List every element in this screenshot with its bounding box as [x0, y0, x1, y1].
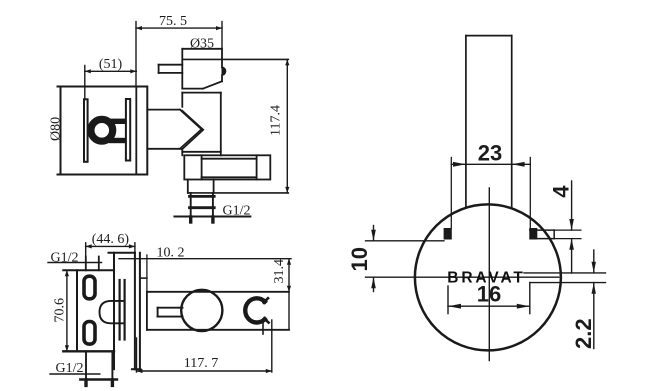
- bottom reference line: [188, 192, 288, 194]
- handle left bar: [84, 99, 88, 162]
- vertical arm bar: [466, 36, 512, 209]
- svg-text:Ø80: Ø80: [49, 117, 64, 141]
- left notch: [444, 228, 452, 240]
- mounting plate front section: [63, 253, 114, 369]
- svg-text:23: 23: [478, 140, 502, 165]
- threaded pipe: [191, 193, 213, 221]
- bar holder assembly: [147, 292, 289, 330]
- dimension 10.2 line: [119, 258, 291, 260]
- centerline right extension: [524, 272, 606, 274]
- side bulge knob: [222, 66, 227, 76]
- svg-text:10. 2: 10. 2: [157, 246, 185, 261]
- knob circle: [181, 290, 222, 331]
- G1/2 lower leader: [50, 373, 100, 375]
- thread bars: [190, 195, 215, 198]
- valve body section: [109, 253, 141, 369]
- dimension 117.4: [285, 59, 289, 193]
- G1/2 upper leader: [48, 262, 102, 264]
- inlet fitting lower: [84, 322, 95, 345]
- dimension 10: [371, 226, 376, 292]
- horizontal centerline: [366, 276, 559, 278]
- svg-text:(51): (51): [99, 57, 123, 72]
- inlet fitting upper: [84, 276, 95, 299]
- svg-text:10: 10: [347, 247, 372, 271]
- handle right bar: [126, 99, 130, 161]
- upper supply stub: [86, 257, 99, 271]
- dimension 4: [569, 181, 574, 273]
- svg-text:117. 7: 117. 7: [184, 356, 218, 371]
- handle stem band: [120, 280, 125, 340]
- svg-text:4: 4: [549, 185, 574, 198]
- dimension 117.7: [137, 320, 272, 373]
- svg-text:75. 5: 75. 5: [159, 14, 187, 29]
- svg-text:117.4: 117.4: [269, 105, 284, 136]
- handle knob donut: [91, 119, 113, 141]
- svg-text:16: 16: [477, 282, 501, 307]
- pipe feet: [189, 217, 192, 222]
- right notch: [529, 228, 537, 240]
- handle dome front view: [100, 301, 124, 323]
- dimension 75.5: [136, 22, 222, 87]
- svg-text:31.4: 31.4: [272, 259, 287, 284]
- handle connector lower: [109, 138, 127, 143]
- 10.2 extension to bar face: [146, 255, 148, 292]
- dimension 2.2: [592, 250, 596, 349]
- body step line: [140, 277, 147, 279]
- knob stub: [158, 308, 183, 317]
- dimension 70.6: [65, 270, 69, 351]
- dimension (44.6): [86, 243, 135, 257]
- spout bar: [184, 155, 270, 179]
- lower pipe flange: [80, 378, 117, 380]
- notch extension lines: [451, 158, 530, 229]
- shower holder C clip: [245, 298, 268, 322]
- dimension 31.4: [287, 259, 291, 330]
- lower supply pipe: [86, 351, 112, 379]
- tab extension lines: [554, 230, 581, 239]
- right tab: [530, 230, 554, 239]
- svg-text:G1/2: G1/2: [51, 251, 79, 266]
- faucet mid body: [182, 93, 221, 156]
- break chevron: [180, 110, 204, 150]
- svg-text:70.6: 70.6: [53, 298, 68, 323]
- left notch reference line: [366, 240, 445, 242]
- wall plate side view: [58, 87, 148, 175]
- outlet block: [188, 180, 214, 193]
- lower pipe feet: [84, 380, 87, 385]
- dimension (51): [85, 66, 137, 100]
- main circle: [415, 204, 561, 350]
- faucet cylinder top: [182, 49, 222, 89]
- svg-text:G1/2: G1/2: [223, 204, 251, 219]
- svg-text:2.2: 2.2: [571, 318, 596, 349]
- handle connector upper: [109, 119, 127, 124]
- connection neck: [147, 110, 180, 149]
- dimension 23: [451, 162, 530, 167]
- dimension 16: [448, 283, 530, 314]
- holder stem: [262, 321, 264, 334]
- faucet upper body: [182, 75, 222, 88]
- dimension 2.2 reference line: [530, 282, 606, 284]
- pipe base line: [175, 215, 251, 217]
- lever handle: [159, 65, 183, 73]
- svg-text:(44. 6): (44. 6): [92, 232, 130, 247]
- vertical centerline: [488, 188, 490, 361]
- cap line top reference: [182, 58, 288, 60]
